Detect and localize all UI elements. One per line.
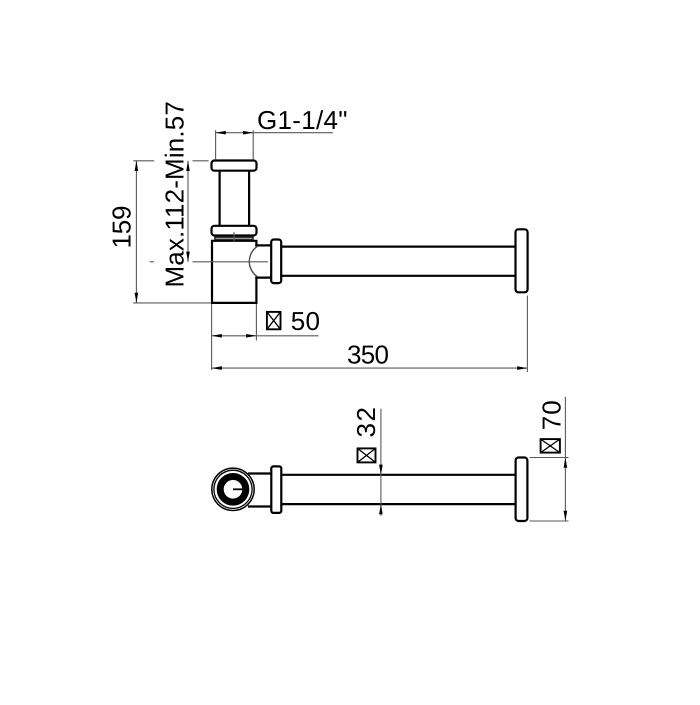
dim 70 diameter box glyph xyxy=(541,439,560,453)
dim 350 extension line right xyxy=(526,296,528,372)
dim G1-1/4 line xyxy=(216,132,333,134)
lower left flange xyxy=(271,466,281,513)
svg-text:G1-1/4": G1-1/4" xyxy=(257,105,348,135)
dim 32 line xyxy=(380,409,382,516)
dim 70 extension lines xyxy=(530,458,569,522)
wall rosette flange xyxy=(516,229,528,292)
dim 32 arrows xyxy=(379,465,383,515)
svg-text:350: 350 xyxy=(347,340,389,370)
top flange (inlet nut) xyxy=(212,161,257,171)
dim 159 extension lines xyxy=(133,161,210,303)
dim 70 line xyxy=(564,397,566,521)
gasket ring xyxy=(215,237,253,240)
dim 159 arrows xyxy=(135,161,139,303)
dim G1-1/4 extension lines xyxy=(216,130,254,159)
svg-text:Max.112-Min.57: Max.112-Min.57 xyxy=(159,101,189,287)
vertical centerline tick xyxy=(233,232,235,241)
radius mark xyxy=(233,488,244,490)
stub pipe lower view xyxy=(248,474,271,507)
trap end view thick annulus xyxy=(220,477,246,503)
svg-text:159: 159 xyxy=(106,206,136,249)
svg-text:50: 50 xyxy=(291,306,320,336)
dim 50 diameter box glyph xyxy=(267,312,281,329)
dim 50 arrows xyxy=(212,334,257,338)
trap end view outer ring xyxy=(212,468,254,510)
dim Max arrows xyxy=(186,161,190,262)
dim 50 extension lines xyxy=(212,304,257,370)
dim 159 line xyxy=(135,161,137,303)
tail pipe xyxy=(220,171,250,226)
lower pipe xyxy=(281,475,515,504)
dim G1-1/4 arrows xyxy=(216,131,254,135)
dim 70 arrows xyxy=(564,458,568,522)
body nut xyxy=(212,226,257,236)
trap end view second ring xyxy=(214,470,252,508)
dim Max.112-Min.57 line xyxy=(187,161,189,262)
dim 350 line xyxy=(212,367,528,369)
bottle body xyxy=(212,241,256,303)
lower wall rosette flange xyxy=(516,458,528,522)
svg-text:32: 32 xyxy=(351,407,381,438)
dim 350 arrows xyxy=(212,366,528,370)
dim 50 line xyxy=(212,335,319,337)
outlet wall nut xyxy=(271,240,281,284)
outlet dome arc xyxy=(249,246,257,276)
centerline dash left xyxy=(150,261,154,263)
dim 32 diameter box glyph xyxy=(358,448,376,462)
pipe centerline horizontal xyxy=(193,261,268,263)
outlet stub xyxy=(256,245,271,277)
svg-text:70: 70 xyxy=(536,400,566,430)
wall pipe xyxy=(281,247,515,276)
